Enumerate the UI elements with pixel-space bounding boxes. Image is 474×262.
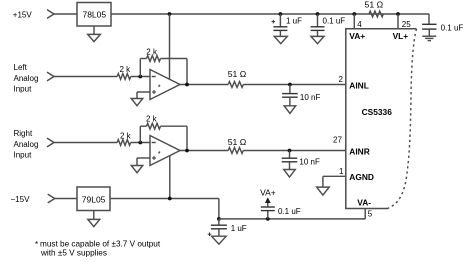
wire -5V rail [110, 198, 219, 200]
svg-text:*: * [158, 83, 161, 92]
svg-text:Analog: Analog [14, 74, 39, 83]
node pin4 junction [352, 12, 356, 16]
ground under C5 [284, 170, 296, 178]
svg-text:0.1 uF: 0.1 uF [278, 207, 301, 216]
svg-text:1 uF: 1 uF [231, 224, 247, 233]
wire R6 to inverting input [131, 142, 150, 144]
wire +5V rail [111, 13, 429, 15]
capacitor C2 0.1uF [316, 12, 320, 16]
wire U1 supply [169, 14, 171, 79]
capacitor C5 10nF [289, 151, 291, 159]
wire pin 5 stub [364, 209, 366, 219]
svg-text:VA-: VA- [357, 198, 371, 208]
svg-text:AGND: AGND [349, 172, 374, 182]
earth ground under C3 [422, 35, 436, 37]
node VA+ decouple junction [266, 217, 270, 221]
svg-text:must be capable of ±3.7 V outp: must be capable of ±3.7 V output [40, 240, 161, 249]
svg-text:CS5336: CS5336 [362, 107, 393, 117]
svg-text:2: 2 [339, 75, 344, 84]
svg-text:−15V: −15V [11, 195, 31, 204]
svg-text:with ±5 V supplies: with ±5 V supplies [40, 248, 107, 257]
node U1 output junction [185, 83, 189, 87]
wire feedback left leg [139, 59, 141, 77]
svg-text:78L05: 78L05 [82, 9, 106, 19]
wire feedback right leg U2 [161, 125, 188, 127]
svg-text:51 Ω: 51 Ω [365, 0, 384, 10]
capacitor C1 1uF [279, 12, 283, 16]
svg-text:51 Ω: 51 Ω [228, 137, 247, 147]
capacitor C7 0.1uF [267, 211, 269, 219]
wire feedback left leg U2 [139, 126, 141, 142]
node U2 output junction [185, 149, 189, 153]
regulator 79L05 [77, 187, 110, 211]
svg-text:AINL: AINL [349, 81, 369, 91]
svg-text:51 Ω: 51 Ω [228, 69, 247, 79]
svg-text:Right: Right [14, 129, 33, 138]
ground under 79L05 [93, 211, 95, 220]
IC dashed edge [388, 29, 417, 209]
wire -5V rail lower [219, 218, 365, 220]
node op-amp U1 V+ junction [168, 12, 172, 16]
svg-text:25: 25 [402, 20, 411, 29]
capacitor C6 1uF [218, 219, 220, 225]
svg-text:Input: Input [14, 85, 33, 94]
node 1uF junction [217, 217, 221, 221]
svg-text:10 nF: 10 nF [299, 158, 320, 167]
ground under C2 [311, 36, 324, 43]
wire pin 4 stub [353, 14, 355, 29]
node U1 inverting input junction [138, 75, 142, 79]
wire R4 to AINR [243, 150, 345, 152]
svg-text:1: 1 [339, 167, 344, 176]
svg-text:Analog: Analog [14, 140, 39, 149]
svg-text:5: 5 [368, 210, 373, 219]
wire rail corner down [218, 199, 220, 219]
node pin25 junction [396, 12, 400, 16]
wire R1 to inverting input [131, 76, 150, 78]
svg-text:VA+: VA+ [260, 188, 276, 198]
op-amp U2 [150, 136, 180, 166]
wire non-inverting to ground U2 [137, 157, 150, 159]
regulator 78L05 [77, 3, 111, 27]
svg-text:1 uF: 1 uF [286, 17, 302, 26]
ground at U1 + input [131, 99, 143, 106]
wire U2 supply [169, 156, 171, 199]
ground under 78L05 [93, 26, 95, 34]
svg-text:+15V: +15V [13, 11, 33, 20]
ground under C1 [274, 36, 287, 43]
svg-text:2 k: 2 k [120, 132, 132, 141]
capacitor C4 10nF [289, 85, 291, 94]
ground under C4 [284, 106, 296, 114]
wire AGND stub [323, 175, 346, 177]
svg-text:Input: Input [14, 151, 33, 160]
svg-text:4: 4 [357, 20, 362, 29]
ground at U2 + input [131, 166, 143, 173]
wire -15V to 79L05 [55, 198, 77, 200]
node U2 V- junction [168, 197, 172, 201]
wire +15V to 78L05 [54, 13, 77, 15]
wire pin 25 stub [397, 14, 399, 29]
capacitor C3 0.1uF [428, 14, 430, 24]
wire U2 output [180, 150, 228, 152]
svg-text:27: 27 [333, 136, 342, 145]
svg-text:*: * [158, 149, 161, 158]
svg-text:79L05: 79L05 [82, 194, 106, 204]
wire input to R6 [54, 142, 117, 144]
svg-text:AINR: AINR [349, 147, 369, 157]
op-amp U1 [150, 70, 180, 100]
IC CS5336 outline [346, 29, 417, 209]
svg-text:VL+: VL+ [393, 31, 409, 41]
svg-text:0.1 uF: 0.1 uF [441, 24, 464, 33]
svg-text:0.1 uF: 0.1 uF [323, 17, 346, 26]
wire feedback right leg [161, 58, 188, 60]
svg-text:10 nF: 10 nF [300, 93, 321, 102]
wire U1 output [180, 84, 228, 86]
wire R3 to AINL [243, 84, 345, 86]
wire non-inverting to ground [137, 91, 150, 93]
ground AGND [317, 187, 330, 195]
svg-text:VA+: VA+ [349, 31, 365, 41]
svg-text:*: * [35, 240, 38, 249]
svg-text:Left: Left [14, 63, 28, 72]
node AINR filter junction [288, 149, 292, 153]
ground under C6 [212, 236, 227, 244]
svg-text:2 k: 2 k [120, 65, 132, 74]
node U2 inverting input junction [138, 141, 142, 145]
wire input to R1 [54, 76, 117, 78]
node AINL filter junction [288, 83, 292, 87]
VA+ arrow [265, 197, 271, 203]
